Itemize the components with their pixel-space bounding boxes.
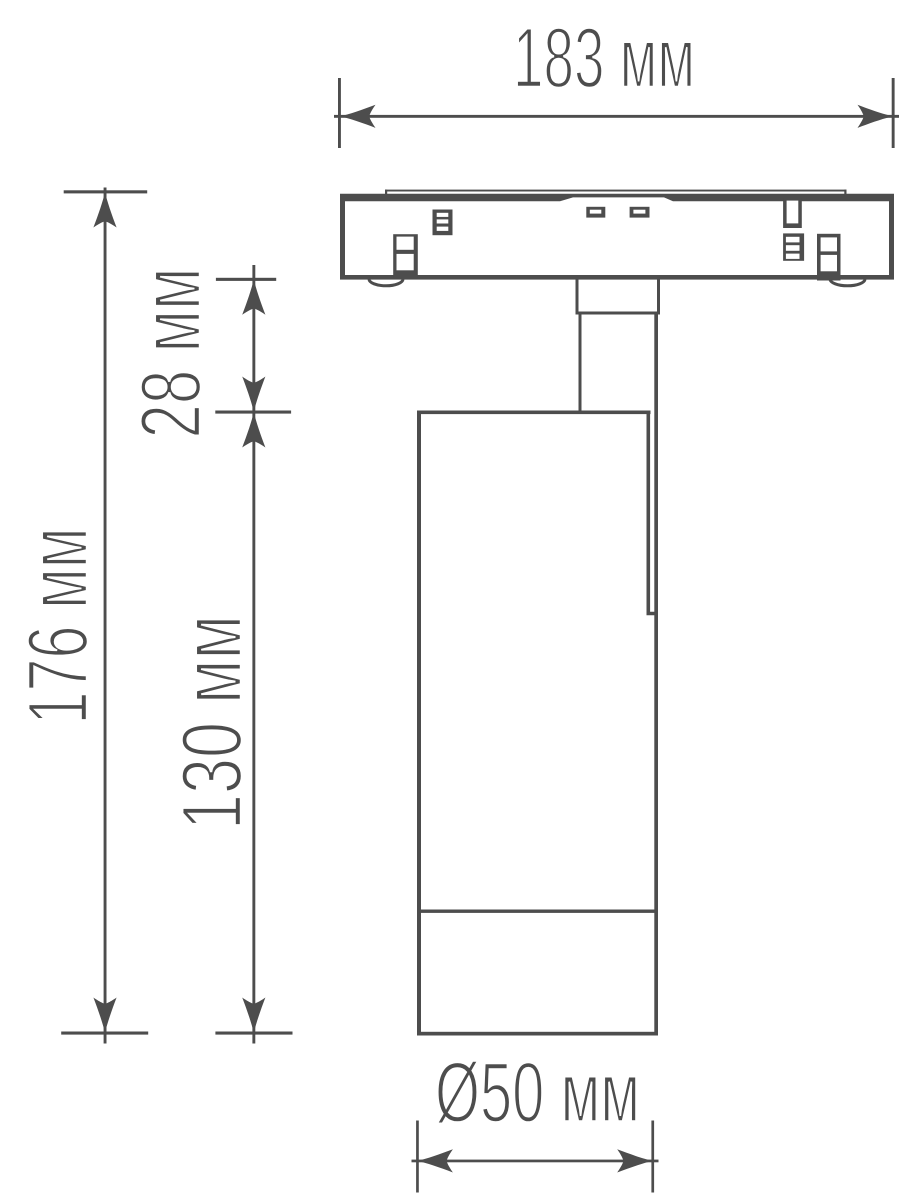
svg-text:183 мм: 183 мм bbox=[513, 11, 695, 106]
right latch block 2 cells bbox=[817, 234, 841, 281]
middle slot 2 bbox=[630, 207, 650, 218]
extension line right (183mm) bbox=[892, 78, 895, 148]
arrow up (28mm top) bbox=[242, 279, 265, 315]
extension line left (183mm) bbox=[338, 78, 341, 148]
tick body bottom (130mm bottom) bbox=[215, 1032, 292, 1035]
adjustment slot line with bottom cap bbox=[648, 412, 654, 614]
dimension line 50mm bbox=[412, 1160, 659, 1163]
track adapter left edge bbox=[340, 194, 345, 280]
arrow left (183mm) bbox=[340, 105, 376, 128]
stem tube left wall bbox=[579, 315, 582, 412]
track adapter top bar bbox=[340, 194, 894, 202]
arrow up (176mm) bbox=[93, 192, 116, 228]
top tick (176mm) bbox=[64, 190, 148, 193]
tick body top (28mm bottom / 130mm top) bbox=[215, 411, 291, 414]
arrow down (176mm) bbox=[93, 998, 116, 1034]
right roller arc bbox=[830, 279, 865, 286]
arrow right (50mm) bbox=[617, 1149, 653, 1172]
arrow down (28mm bottom) bbox=[242, 377, 265, 413]
arrow up (130mm top) bbox=[242, 412, 265, 448]
left roller arc bbox=[369, 279, 403, 286]
bottom tick (176mm) bbox=[61, 1032, 148, 1035]
left contact block 3 slots bbox=[433, 210, 453, 236]
arrow right (183mm) bbox=[858, 105, 894, 128]
dimension line 183mm bbox=[334, 115, 899, 118]
svg-text:176 мм: 176 мм bbox=[11, 528, 106, 725]
svg-text:Ø50 мм: Ø50 мм bbox=[435, 1046, 640, 1141]
svg-text:130 мм: 130 мм bbox=[165, 615, 260, 830]
arrow down (130mm bottom) bbox=[242, 998, 265, 1034]
stem collar right wall bbox=[657, 279, 660, 312]
tick bracket bottom (28mm top) bbox=[216, 278, 276, 281]
left latch block 2 cells bbox=[393, 234, 418, 278]
dimension line 28mm and 130mm bbox=[252, 265, 255, 1044]
extension line left (50mm) bbox=[416, 1121, 419, 1193]
right hanging tab bbox=[783, 198, 802, 228]
svg-text:28 мм: 28 мм bbox=[124, 268, 219, 439]
middle slot 1 bbox=[586, 207, 605, 218]
track adapter top lip bbox=[385, 190, 847, 192]
stem collar left wall bbox=[576, 279, 579, 312]
dimension line 176mm bbox=[104, 188, 107, 1044]
stem tube right wall and body right edge bbox=[654, 315, 658, 1036]
arrow left (50mm) bbox=[417, 1149, 453, 1172]
lamp body bottom edge bbox=[417, 1032, 658, 1036]
stem collar bottom line bbox=[576, 312, 661, 315]
track adapter bottom edge bbox=[340, 275, 894, 280]
lamp body divider line bbox=[419, 910, 656, 913]
track adapter right edge bbox=[889, 194, 894, 280]
extension line right (50mm) bbox=[651, 1121, 654, 1193]
lamp body top edge bbox=[417, 411, 651, 415]
lamp body left edge bbox=[417, 411, 421, 1036]
right contact block 3 slots bbox=[783, 233, 804, 260]
